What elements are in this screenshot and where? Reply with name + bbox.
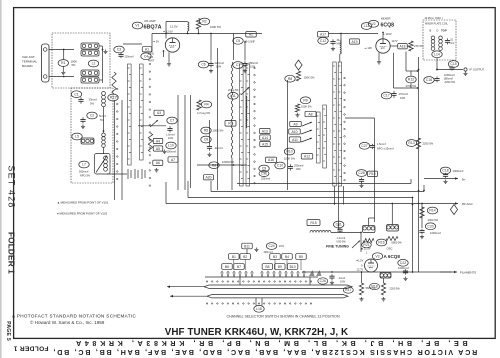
- junction L3 at 412: [412, 197, 414, 199]
- coil L11 label: [228, 92, 238, 99]
- svg-text:A2: A2: [249, 33, 253, 37]
- svg-text:A3: A3: [157, 111, 161, 115]
- capacitor C28 label: [356, 170, 366, 177]
- selector teeth circles: [221, 271, 304, 272]
- svg-text:R9: R9: [303, 99, 307, 103]
- selector box B5: [296, 254, 307, 260]
- switch wafer bar 2: [140, 64, 144, 160]
- wafer wiper link 1: [302, 122, 312, 126]
- svg-text:12.7V: 12.7V: [357, 268, 364, 272]
- svg-text:400mmf: 400mmf: [264, 251, 273, 254]
- bus line L4: [166, 203, 427, 205]
- junction bus at choke: [187, 33, 189, 35]
- svg-text:FINE TUNING: FINE TUNING: [326, 245, 349, 249]
- svg-text:RF AMP: RF AMP: [145, 19, 156, 23]
- wire R17 top: [361, 272, 363, 283]
- resistor R2: [196, 19, 200, 30]
- svg-text:IF OUTPUT: IF OUTPUT: [470, 68, 485, 72]
- filament arrow: [440, 271, 457, 274]
- wire plate top run: [166, 21, 188, 23]
- ground IF output: [463, 72, 467, 76]
- svg-text:C1: C1: [74, 92, 78, 96]
- wire mixer grid top: [382, 34, 384, 39]
- svg-text:R8: R8: [288, 77, 292, 81]
- svg-text:.22mmf: .22mmf: [214, 146, 223, 150]
- wire choke to bus: [187, 31, 189, 34]
- resistor R17 label: [343, 287, 353, 293]
- dashed box antenna matching network: [52, 33, 110, 88]
- svg-text:C28: C28: [358, 171, 364, 175]
- svg-text:L7: L7: [82, 163, 86, 167]
- svg-text:⇀1.5V: ⇀1.5V: [356, 259, 364, 263]
- svg-text:2200 5%: 2200 5%: [423, 142, 434, 146]
- svg-text:4mmf: 4mmf: [339, 276, 346, 280]
- component box A12: [301, 154, 313, 159]
- svg-text:B10: B10: [290, 265, 296, 269]
- component box R7: [225, 121, 236, 127]
- antenna terminal top: [43, 48, 47, 52]
- svg-text:39-3.5NF: 39-3.5NF: [245, 41, 256, 44]
- component box A18: [398, 44, 408, 49]
- wire L19 feed: [369, 217, 375, 219]
- tube V1 6BQ7A: [165, 38, 179, 52]
- svg-text:1000mmf: 1000mmf: [430, 231, 441, 235]
- coil L19 osc: [363, 226, 376, 233]
- capacitor C14: [445, 38, 450, 44]
- wire to R1: [63, 50, 65, 60]
- svg-text:2200 5%: 2200 5%: [390, 287, 401, 291]
- ground below C8: [207, 153, 211, 157]
- ground cathode: [167, 62, 171, 66]
- svg-text:R17: R17: [345, 288, 351, 292]
- svg-text:● MEASURED FROM POINT OF V102: ● MEASURED FROM POINT OF V102: [57, 212, 108, 216]
- junction dot J10: [360, 232, 362, 234]
- dashed box RF input coils: [71, 88, 113, 183]
- coil L3 upper winding: [81, 70, 99, 76]
- wire L19 drop: [368, 218, 370, 226]
- svg-text:SET 428: SET 428: [6, 165, 16, 208]
- resistor R9: [295, 104, 299, 112]
- wire R12 bottom: [410, 84, 412, 89]
- resistor R3: [148, 133, 152, 152]
- selector shaft bar 2: [207, 295, 348, 298]
- wire bus drop C7b: [244, 42, 246, 61]
- svg-text:B6: B6: [225, 265, 229, 269]
- capacitor C20 label: [425, 223, 435, 230]
- component box A1: [142, 47, 152, 52]
- tube V2 6CQ8 mixer: [376, 39, 390, 53]
- svg-text:mmf: mmf: [450, 42, 455, 45]
- svg-text:C15: C15: [450, 62, 456, 66]
- selector contact dots lower: [206, 303, 311, 304]
- coil L14 secondary: [439, 36, 443, 50]
- svg-text:180mmf: 180mmf: [444, 77, 454, 81]
- component box A5: [153, 146, 163, 151]
- bus line L3 left up: [187, 181, 189, 198]
- svg-text:470mmf: 470mmf: [399, 92, 409, 96]
- socket contact S3: [142, 169, 145, 179]
- capacitor C13: [330, 39, 335, 45]
- component box A2: [246, 32, 257, 37]
- capacitor C9b label: [259, 171, 269, 177]
- svg-text:NPO ±.25mmf: NPO ±.25mmf: [377, 147, 394, 151]
- wire coil bottom tap: [99, 79, 103, 81]
- svg-text:L10: L10: [168, 144, 174, 148]
- capacitor C7b label: [233, 62, 243, 69]
- wire A18 to R11: [407, 45, 411, 47]
- svg-text:R21: R21: [110, 96, 116, 100]
- wire cathode drop: [168, 52, 170, 62]
- bus line L1: [237, 183, 411, 185]
- junction filament C26: [331, 271, 333, 273]
- svg-text:10%: 10%: [279, 245, 285, 248]
- ground wiper branch: [154, 168, 158, 172]
- wire L18 left: [255, 298, 257, 306]
- resistor R8: [296, 71, 300, 81]
- capacitor C27 label: [359, 142, 369, 149]
- wire bus drop C6: [210, 34, 212, 61]
- ground below R17: [359, 297, 363, 301]
- osc feed line 1b: [334, 204, 336, 205]
- svg-text:PAGE 5: PAGE 5: [5, 321, 11, 341]
- svg-text:C22: C22: [400, 261, 406, 265]
- svg-text:A250 5%: A250 5%: [445, 80, 456, 84]
- svg-text:A9: A9: [293, 122, 297, 126]
- bus line L3: [188, 197, 413, 199]
- coil L14 primary: [431, 36, 435, 50]
- selector box B1: [229, 254, 240, 260]
- wire C3 top: [123, 43, 142, 45]
- junction dot J3: [233, 164, 235, 166]
- junction antenna top: [63, 49, 65, 51]
- svg-text:© Howard W. Sams & Co., Inc. 1: © Howard W. Sams & Co., Inc. 1959: [30, 319, 105, 325]
- wire W2 coil bottom: [231, 158, 233, 190]
- svg-text:100mmf: 100mmf: [167, 150, 177, 154]
- component box A4: [153, 138, 163, 143]
- svg-text:100K 5%: 100K 5%: [304, 76, 316, 80]
- resistor R12 label: [406, 76, 416, 83]
- svg-text:⇀ 12.6V: ⇀ 12.6V: [163, 29, 173, 33]
- socket contact S2: [135, 169, 138, 179]
- switch wafer bar 5: [317, 112, 321, 163]
- svg-text:B11: B11: [244, 244, 250, 248]
- resistor R17: [359, 283, 363, 295]
- junction dot J12: [412, 204, 414, 206]
- svg-text:2meg 5%: 2meg 5%: [228, 89, 239, 92]
- ground below R18: [381, 297, 385, 301]
- test point diamond D1: [295, 60, 302, 70]
- svg-text:220mmf: 220mmf: [125, 56, 134, 59]
- coil L14 label: [432, 51, 442, 58]
- svg-text:L18: L18: [256, 307, 262, 311]
- svg-text:B2: B2: [243, 255, 247, 259]
- component box A8: [305, 111, 316, 116]
- coil L9 plate choke: [188, 22, 189, 31]
- svg-text:6BQ7A: 6BQ7A: [144, 25, 162, 31]
- coil L11: [246, 96, 247, 128]
- antenna terminal bottom: [43, 75, 47, 79]
- svg-text:C20: C20: [427, 225, 433, 229]
- junction dot J13: [418, 203, 420, 205]
- component box A13: [260, 128, 271, 133]
- osc feed line 3: [343, 186, 345, 205]
- wire R2 to bus: [198, 29, 200, 34]
- tube V2 label oval: [368, 20, 378, 27]
- svg-text:A15: A15: [262, 142, 268, 146]
- svg-text:OSC: OSC: [387, 247, 393, 251]
- svg-text:4.7meg 5%: 4.7meg 5%: [197, 111, 211, 115]
- svg-text:470K 5%: 470K 5%: [406, 84, 417, 88]
- svg-text:BOARD: BOARD: [22, 64, 34, 68]
- wire AGC drop: [421, 204, 423, 229]
- selector wiper contacts: [221, 273, 305, 278]
- svg-text:C5: C5: [236, 39, 240, 43]
- svg-text:TOP: TOP: [441, 28, 447, 32]
- coil L5 label: [72, 133, 82, 140]
- svg-text:FOLDER 1: FOLDER 1: [13, 345, 48, 352]
- coil L10 label: [166, 142, 176, 149]
- svg-text:1000Ω 5%: 1000Ω 5%: [222, 160, 235, 164]
- svg-text:R2: R2: [202, 20, 206, 24]
- svg-text:10%: 10%: [168, 136, 174, 140]
- coil L15 fine tuning: [310, 231, 331, 233]
- adjust arrow L7: [96, 156, 107, 173]
- svg-text:C17: C17: [383, 94, 389, 98]
- ground L10 branch: [162, 150, 166, 154]
- junction L4 at feed: [334, 203, 336, 205]
- shaft arrow 2: [170, 295, 207, 298]
- svg-text:3300 5%: 3300 5%: [428, 218, 439, 222]
- capacitor C24 label: [266, 243, 276, 250]
- socket contact dots: [117, 88, 119, 180]
- wire IF drop: [436, 58, 438, 70]
- tube V3 6CQ8 osc: [365, 259, 378, 272]
- junction dot J14: [103, 130, 105, 132]
- capacitor C27b plates: [370, 144, 375, 149]
- svg-text:5%: 5%: [72, 63, 77, 67]
- capacitor C10 label: [275, 162, 285, 169]
- wire antenna top lead: [49, 49, 74, 51]
- coil L12: [340, 41, 341, 54]
- coil L7 shield box: [95, 154, 111, 175]
- svg-text:R16: R16: [378, 241, 384, 245]
- test point diamond D2: [450, 205, 457, 215]
- wire to tube socket: [107, 173, 127, 175]
- bus line L4 left up: [165, 182, 167, 204]
- long vertical feed 3: [287, 80, 289, 190]
- svg-text:A16: A16: [268, 158, 274, 162]
- svg-text:A11: A11: [292, 138, 298, 142]
- selector contact dots upper: [206, 281, 311, 282]
- dashed box mixer plate coil: [423, 20, 456, 60]
- wire R18 top: [383, 278, 385, 283]
- svg-text:A10: A10: [291, 130, 297, 134]
- coil texture W2: [231, 62, 233, 158]
- switch wafer bar 6: [323, 105, 327, 168]
- wire L4 down: [103, 107, 105, 133]
- adjust arrow L11: [241, 88, 249, 96]
- coil L6: [102, 133, 106, 147]
- svg-text:250mmf: 250mmf: [294, 164, 304, 168]
- component box R15: [307, 220, 320, 226]
- junction bus at R2: [198, 33, 200, 35]
- svg-text:⇀ 10V: ⇀ 10V: [365, 46, 373, 50]
- svg-text:117V: 117V: [392, 39, 398, 43]
- capacitor C18: [443, 173, 448, 178]
- resistor R9 label: [300, 97, 310, 104]
- capacitor C1: [78, 97, 83, 104]
- resistor R21 label: [362, 242, 372, 248]
- svg-text:R15: R15: [310, 221, 316, 225]
- wafer wiper link 3: [301, 138, 312, 142]
- svg-text:220mmf: 220mmf: [215, 61, 225, 65]
- wire C5 drop: [233, 34, 235, 39]
- svg-text:A5: A5: [156, 147, 160, 151]
- svg-text:5mmf: 5mmf: [99, 114, 106, 118]
- fine tuning box top edge: [345, 117, 375, 119]
- capacitor C4 label: [141, 53, 151, 60]
- resistor R14: [420, 207, 424, 218]
- resistor R18: [381, 283, 385, 295]
- wire grid drop: [163, 51, 165, 58]
- svg-text:A6: A6: [156, 161, 160, 165]
- svg-text:R10: R10: [286, 150, 292, 154]
- svg-text:A18: A18: [399, 45, 405, 49]
- junction osc bus: [340, 33, 342, 35]
- svg-text:B3: B3: [273, 255, 277, 259]
- selector box B11: [242, 243, 253, 249]
- capacitor C21 label: [334, 221, 344, 228]
- svg-text:MIXER: MIXER: [381, 16, 391, 20]
- selector rail to bar link 1: [239, 277, 241, 285]
- svg-text:R12: R12: [408, 78, 414, 82]
- selector box B6: [222, 264, 233, 270]
- svg-text:10%: 10%: [296, 167, 302, 171]
- svg-text:R1: R1: [61, 61, 65, 65]
- tube V3 label oval: [372, 253, 382, 260]
- svg-text:C16: C16: [426, 78, 432, 82]
- resistor R4: [197, 100, 201, 110]
- svg-text:BE, BF, BH, BJ, BK, BL, BM, BN: BE, BF, BH, BJ, BK, BL, BM, BN, BP, BR, …: [72, 339, 467, 348]
- svg-text:⇀.5V: ⇀.5V: [153, 40, 159, 44]
- ground AGC: [420, 235, 424, 239]
- svg-text:R13: R13: [408, 141, 414, 145]
- capacitor C5 label: [233, 37, 243, 44]
- filament vertical: [412, 198, 414, 273]
- wafer wiper link 2: [301, 130, 312, 134]
- svg-text:A12: A12: [304, 155, 310, 159]
- coil L5 winding: [81, 138, 94, 144]
- svg-text:L5: L5: [75, 135, 79, 139]
- svg-text:C10: C10: [277, 164, 283, 168]
- svg-text:R18: R18: [371, 285, 377, 289]
- capacitor C26: [329, 274, 334, 280]
- capacitor C6 label: [198, 61, 208, 68]
- coil L4: [102, 92, 106, 107]
- svg-text:TERMINAL: TERMINAL: [22, 60, 38, 64]
- capacitor C22 label: [398, 259, 408, 266]
- svg-text:A4: A4: [156, 139, 160, 143]
- svg-text:6800 5%: 6800 5%: [392, 241, 403, 245]
- resistor R10 label: [284, 148, 294, 155]
- svg-text:C2: C2: [90, 114, 94, 118]
- component box A10: [289, 129, 301, 134]
- svg-text:A14: A14: [262, 136, 268, 140]
- switch wafer bar 7: [333, 62, 336, 186]
- coil assembly hline: [138, 125, 166, 127]
- resistor R8 label: [285, 75, 295, 82]
- coil L7 label: [79, 161, 89, 168]
- junction grid: [163, 50, 165, 52]
- coil assembly line A: [177, 95, 179, 190]
- junction dot J8: [418, 190, 420, 192]
- svg-text:C6: C6: [201, 63, 205, 67]
- resistor R6 label: [209, 162, 219, 169]
- svg-text:C7: C7: [170, 119, 174, 123]
- capacitor C15 label: [448, 61, 458, 68]
- socket contact S1: [128, 169, 131, 179]
- resistor R14 label: [427, 207, 437, 214]
- svg-text:L2: L2: [92, 62, 96, 66]
- svg-text:RCA VICTOR CHASSIS KCS122BA, B: RCA VICTOR CHASSIS KCS122BA, BAA, BAB, B…: [52, 348, 477, 357]
- capacitor C8: [207, 144, 212, 151]
- selector box B10: [287, 264, 298, 270]
- wire AGC node: [209, 120, 211, 144]
- component box A3: [154, 110, 164, 115]
- wire bus left drop: [151, 34, 153, 53]
- resistor R13 label: [406, 140, 416, 147]
- resistor R4 label: [201, 101, 211, 108]
- selector box B7: [234, 264, 245, 270]
- wire R11 corner: [406, 70, 418, 72]
- wire mixer plate drop: [393, 53, 395, 88]
- svg-text:1.5mmf: 1.5mmf: [377, 142, 386, 146]
- wire R11 drop: [405, 52, 407, 72]
- wire osc top bus: [340, 34, 342, 42]
- svg-text:N30 5%: N30 5%: [337, 240, 347, 244]
- capacitor C15: [449, 66, 454, 71]
- svg-text:B7: B7: [237, 265, 241, 269]
- capacitor C21 trimmer: [337, 228, 342, 233]
- svg-text:R5: R5: [204, 129, 208, 133]
- resistor R16 label: [376, 239, 386, 246]
- ground matching network: [103, 50, 107, 54]
- junction L16 feed: [391, 203, 393, 205]
- wire R12 top: [410, 71, 412, 76]
- svg-text:100K 5%: 100K 5%: [213, 129, 225, 133]
- coil L7 slug: [104, 156, 108, 171]
- svg-text:V2: V2: [371, 22, 375, 26]
- wire matching network right: [102, 46, 104, 83]
- capacitor C17 label: [381, 92, 391, 99]
- svg-text:FILAMENTS: FILAMENTS: [460, 270, 476, 274]
- component box A17: [318, 32, 329, 37]
- capacitor C12 label: [318, 37, 328, 44]
- junction dot J4: [244, 41, 246, 43]
- component box A7: [168, 157, 178, 162]
- switch wiper W1: [150, 120, 158, 127]
- svg-text:1.5mmf: 1.5mmf: [166, 133, 175, 137]
- ground B11: [254, 248, 258, 252]
- wafer 1 contact dots: [149, 63, 151, 186]
- coil L3 lower winding: [81, 77, 99, 83]
- wire mixer lower bus: [394, 87, 418, 89]
- junction dot J5: [382, 32, 384, 34]
- svg-text:100K 5%: 100K 5%: [284, 156, 296, 160]
- bus line L2 left up: [210, 181, 212, 192]
- capacitor C3 label: [114, 46, 124, 53]
- coil L18 label: [254, 305, 264, 312]
